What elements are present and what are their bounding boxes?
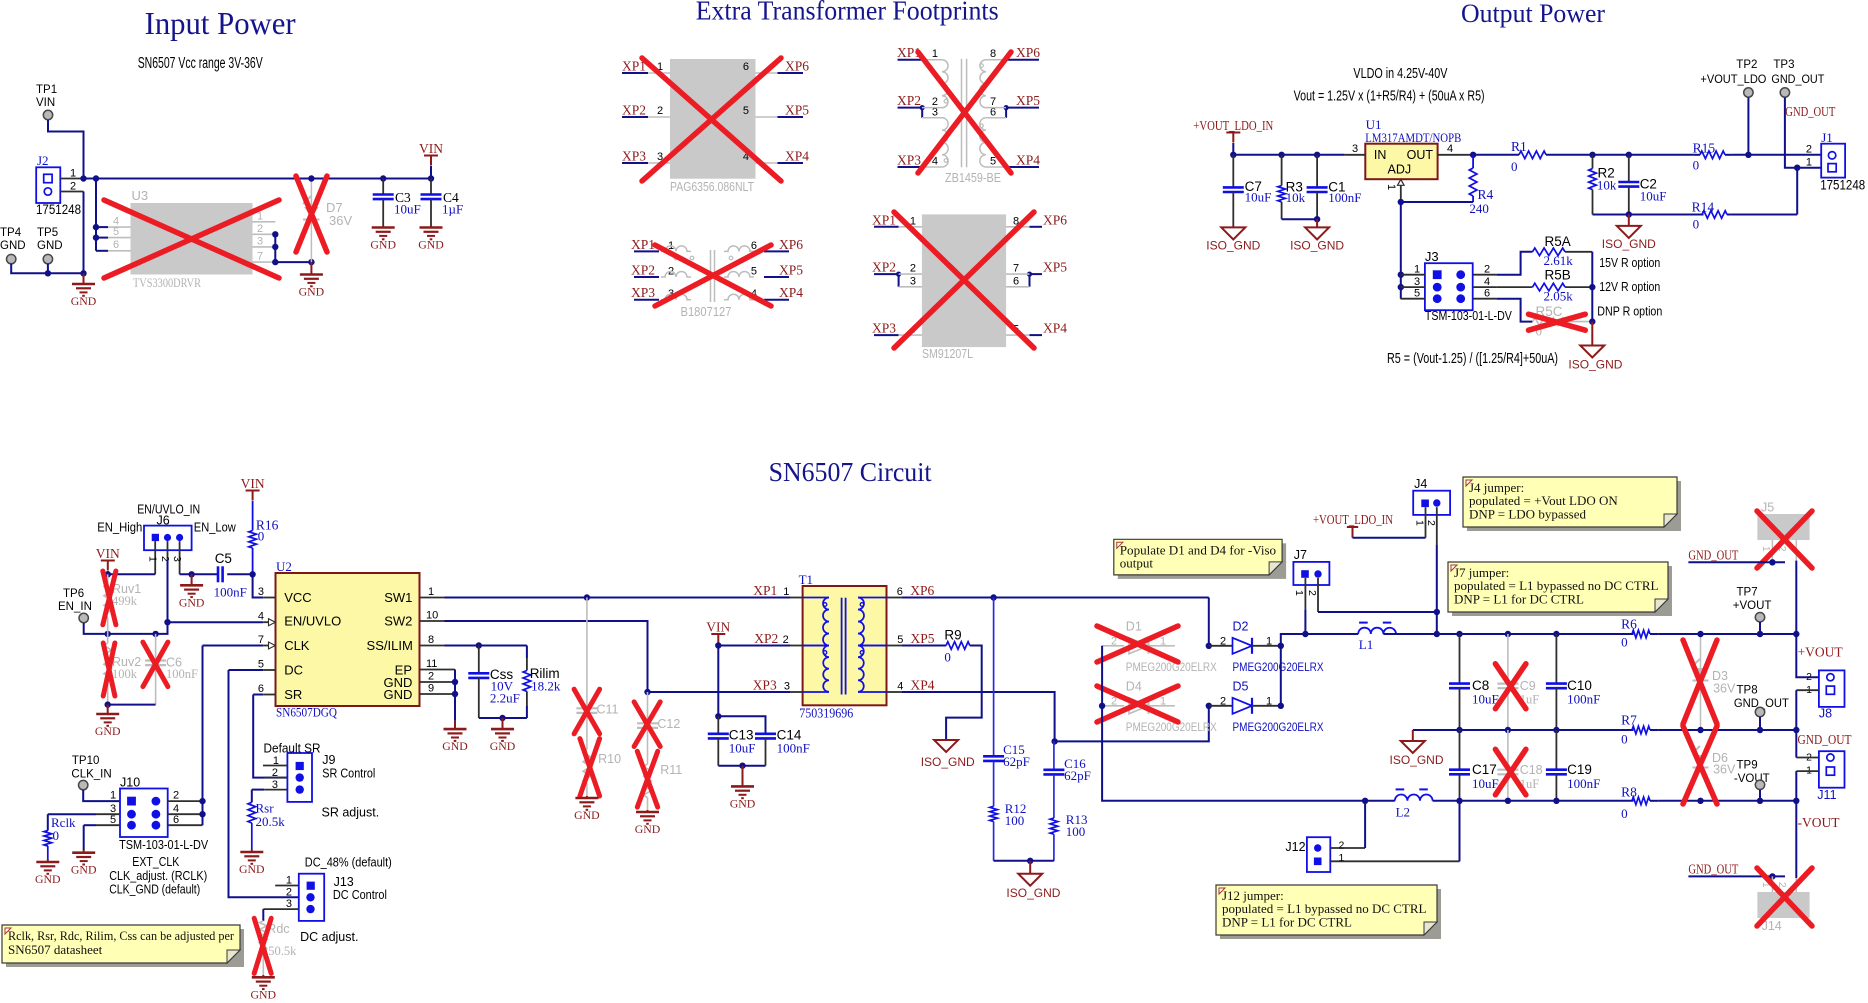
svg-text:XP6: XP6 bbox=[785, 59, 809, 74]
svg-text:SW1: SW1 bbox=[384, 590, 412, 605]
svg-text:XP6: XP6 bbox=[1043, 212, 1067, 227]
svg-text:4: 4 bbox=[897, 681, 903, 693]
wire J4 pin2 down to +V rail bbox=[1436, 545, 1438, 634]
capacitor C7 bbox=[1232, 155, 1234, 188]
svg-text:1: 1 bbox=[1806, 157, 1812, 169]
svg-text:5: 5 bbox=[990, 156, 996, 168]
svg-text:OUT: OUT bbox=[1407, 148, 1434, 162]
red X over D6 bbox=[1683, 726, 1717, 804]
svg-text:5: 5 bbox=[743, 105, 749, 117]
svg-text:GND: GND bbox=[635, 822, 661, 836]
note J4 jumper bbox=[1467, 481, 1681, 531]
ground at EP bbox=[454, 721, 456, 729]
input arrow pin7 bbox=[269, 642, 276, 649]
iso ground tap bbox=[1412, 730, 1414, 741]
svg-text:PMEG200G20ELRX: PMEG200G20ELRX bbox=[1233, 660, 1324, 674]
svg-text:ISO_GND: ISO_GND bbox=[1390, 753, 1444, 767]
red X over D7 bbox=[296, 176, 327, 252]
svg-text:2: 2 bbox=[1806, 144, 1812, 156]
svg-text:2: 2 bbox=[1484, 264, 1490, 276]
svg-text:D5: D5 bbox=[1233, 680, 1249, 694]
svg-text:J7: J7 bbox=[1294, 548, 1307, 562]
capacitor C13 10uF bbox=[717, 716, 719, 734]
wire GND_OUT bottom to J14 bbox=[1688, 875, 1785, 877]
svg-text:TP4: TP4 bbox=[0, 227, 22, 239]
svg-text:2: 2 bbox=[257, 223, 263, 235]
svg-text:750319696: 750319696 bbox=[799, 706, 853, 721]
svg-text:U3: U3 bbox=[132, 188, 149, 203]
lead J13 pin1 bbox=[275, 885, 299, 887]
svg-text:SN6507 Circuit: SN6507 Circuit bbox=[769, 457, 932, 487]
resistor R10 (DNP) bbox=[583, 750, 591, 784]
wire OUT node bbox=[1473, 154, 1496, 156]
svg-text:XP5: XP5 bbox=[1016, 93, 1040, 108]
svg-text:D2: D2 bbox=[1233, 620, 1249, 634]
svg-text:SS/ILIM: SS/ILIM bbox=[367, 638, 413, 653]
svg-text:VCC: VCC bbox=[284, 590, 311, 605]
svg-text:C11: C11 bbox=[597, 703, 619, 717]
svg-text:TSM-103-01-L-DV: TSM-103-01-L-DV bbox=[1425, 309, 1513, 323]
svg-text:R5 = (Vout-1.25) / ([1.25/R4]+: R5 = (Vout-1.25) / ([1.25/R4]+50uA) bbox=[1387, 350, 1558, 367]
red X over B1807127 bbox=[655, 245, 771, 306]
capacitor Css 2.2uF bbox=[478, 646, 480, 674]
svg-text:4: 4 bbox=[1447, 143, 1453, 155]
svg-text:GND_OUT: GND_OUT bbox=[1771, 74, 1824, 86]
ground at C4 bbox=[430, 226, 432, 228]
red X over C12 bbox=[634, 702, 660, 747]
section Extra Transformer Footprints bbox=[622, 0, 1067, 361]
wire ADJ down to J3 bbox=[1400, 202, 1402, 299]
svg-text:XP4: XP4 bbox=[779, 285, 803, 300]
svg-text:+VOUT_LDO_IN: +VOUT_LDO_IN bbox=[1193, 118, 1273, 133]
svg-text:2: 2 bbox=[1806, 671, 1812, 683]
wire LDO port to J4 pin1 bbox=[1353, 537, 1426, 539]
svg-text:GND: GND bbox=[574, 808, 600, 822]
svg-text:SM91207L: SM91207L bbox=[922, 347, 973, 361]
capacitor C3 bbox=[380, 175, 386, 181]
svg-text:100nF: 100nF bbox=[777, 740, 810, 755]
svg-text:6: 6 bbox=[258, 683, 264, 695]
resistor R5A 2.61k bbox=[1533, 248, 1566, 256]
svg-text:Rclk, Rsr, Rdc, Rilim, Css can: Rclk, Rsr, Rdc, Rilim, Css can be adjust… bbox=[8, 928, 235, 943]
svg-text:GND: GND bbox=[37, 240, 63, 252]
resistor Rilim 18.2k bbox=[526, 646, 528, 659]
svg-text:3: 3 bbox=[258, 586, 264, 598]
svg-text:R7: R7 bbox=[1621, 712, 1637, 727]
svg-text:15V R option: 15V R option bbox=[1599, 256, 1660, 270]
svg-text:J12: J12 bbox=[1285, 840, 1305, 854]
red X over C11 bbox=[574, 689, 600, 734]
resistor R6 0 bbox=[1632, 630, 1650, 638]
svg-text:U2: U2 bbox=[276, 559, 292, 574]
svg-text:TP8: TP8 bbox=[1737, 685, 1758, 697]
iso ground at R5 bbox=[1591, 322, 1593, 346]
inductor L2 bbox=[1365, 800, 1395, 802]
svg-text:6: 6 bbox=[173, 814, 179, 826]
svg-text:TP3: TP3 bbox=[1773, 59, 1794, 71]
svg-text:EN_IN: EN_IN bbox=[58, 601, 92, 613]
svg-text:6: 6 bbox=[1484, 288, 1490, 300]
wire J7 pin1 to +V rail bbox=[1304, 610, 1306, 634]
red X over J5 bbox=[1757, 511, 1812, 568]
svg-text:SW2: SW2 bbox=[384, 614, 412, 629]
svg-text:0: 0 bbox=[1621, 806, 1628, 821]
svg-text:0: 0 bbox=[944, 650, 951, 665]
svg-text:XP5: XP5 bbox=[785, 103, 809, 118]
ic U3 TVS3300DRVR (DNP) bbox=[108, 226, 131, 228]
svg-text:TP10: TP10 bbox=[72, 755, 100, 767]
svg-text:5: 5 bbox=[897, 634, 903, 646]
svg-text:DC_48% (default): DC_48% (default) bbox=[305, 856, 392, 870]
svg-text:10uF: 10uF bbox=[729, 740, 756, 755]
wire J10 pin5 to gnd bbox=[96, 824, 120, 826]
svg-text:2: 2 bbox=[159, 556, 171, 562]
ground at C3 bbox=[382, 226, 384, 228]
svg-text:2.05k: 2.05k bbox=[1544, 289, 1574, 304]
capacitor C12 (DNP) bbox=[647, 692, 649, 723]
resistor R5B 2.05k bbox=[1533, 283, 1566, 291]
svg-text:XP4: XP4 bbox=[1016, 153, 1040, 168]
wire SW2 to T1 pin3 bbox=[445, 621, 791, 692]
red X over R5C bbox=[1529, 314, 1586, 330]
red X over Ruv2 bbox=[103, 643, 115, 696]
svg-text:5: 5 bbox=[258, 659, 264, 671]
svg-text:GND: GND bbox=[239, 862, 265, 876]
svg-text:+VOUT: +VOUT bbox=[1733, 600, 1772, 612]
capacitor C17 10uF bbox=[1459, 730, 1461, 770]
svg-text:GND_OUT: GND_OUT bbox=[1688, 862, 1739, 877]
wire J5 pin to +V rail bbox=[1796, 561, 1819, 678]
ground at Ruv2 bbox=[107, 705, 109, 714]
svg-text:GND: GND bbox=[370, 238, 396, 252]
svg-text:4: 4 bbox=[258, 611, 264, 623]
svg-text:5: 5 bbox=[751, 266, 757, 278]
svg-text:TP1: TP1 bbox=[36, 84, 57, 96]
svg-text:SR: SR bbox=[284, 687, 302, 702]
lead J9 pin2 bbox=[264, 777, 287, 779]
svg-text:2: 2 bbox=[1425, 520, 1437, 526]
svg-text:DC Control: DC Control bbox=[333, 888, 387, 902]
svg-text:3: 3 bbox=[784, 681, 790, 693]
wire J3 pin4 to R5B bbox=[1497, 286, 1533, 288]
svg-text:C17: C17 bbox=[1472, 762, 1497, 777]
svg-text:GND: GND bbox=[730, 796, 756, 810]
svg-text:GND_OUT: GND_OUT bbox=[1785, 104, 1836, 119]
pin 1 ADJ of U1 bbox=[1398, 179, 1405, 185]
svg-text:J11: J11 bbox=[1817, 788, 1836, 802]
wire TP3 to J1 pin1 bbox=[1785, 98, 1821, 168]
capacitor C18 1uF (DNP) bbox=[1507, 730, 1509, 770]
resistor R1 0 bbox=[1519, 151, 1546, 159]
svg-text:J1: J1 bbox=[1821, 130, 1833, 145]
diode D2 PMEG200G20ELRX bbox=[1209, 645, 1233, 647]
resistor R15 0 bbox=[1700, 151, 1725, 159]
svg-text:J3: J3 bbox=[1425, 249, 1439, 264]
svg-text:36V: 36V bbox=[1713, 763, 1736, 777]
svg-text:XP3: XP3 bbox=[631, 285, 655, 300]
svg-text:XP5: XP5 bbox=[779, 263, 803, 278]
svg-text:10k: 10k bbox=[1286, 190, 1306, 205]
svg-text:J8: J8 bbox=[1819, 707, 1832, 721]
svg-text:100nF: 100nF bbox=[1567, 776, 1600, 791]
svg-text:GND: GND bbox=[0, 240, 26, 252]
svg-text:Output Power: Output Power bbox=[1461, 0, 1605, 28]
svg-text:GND: GND bbox=[179, 595, 205, 609]
svg-text:10uF: 10uF bbox=[394, 202, 421, 217]
svg-text:Extra Transformer Footprints: Extra Transformer Footprints bbox=[696, 0, 999, 26]
svg-text:0: 0 bbox=[53, 828, 60, 843]
svg-text:XP2: XP2 bbox=[631, 263, 655, 278]
svg-text:TVS3300DRVR: TVS3300DRVR bbox=[133, 275, 201, 290]
svg-text:VIN: VIN bbox=[241, 476, 265, 491]
section Input Power bbox=[0, 5, 463, 308]
svg-text:3: 3 bbox=[910, 275, 916, 287]
svg-text:2: 2 bbox=[173, 790, 179, 802]
wire J6 pin3 to gnd and C5 bbox=[180, 573, 218, 575]
inductor L1 bbox=[1305, 633, 1358, 635]
wire XP5 R9 bbox=[902, 645, 946, 647]
svg-text:12V R option: 12V R option bbox=[1599, 280, 1660, 294]
svg-text:DC adjust.: DC adjust. bbox=[300, 930, 358, 944]
svg-text:J13: J13 bbox=[334, 875, 354, 889]
iso ground at snubber bbox=[1029, 861, 1031, 874]
svg-text:VIN: VIN bbox=[706, 620, 730, 635]
resistor R13 100 bbox=[1050, 818, 1058, 834]
svg-text:0: 0 bbox=[258, 528, 265, 543]
svg-text:DNP = L1 for DC CTRL: DNP = L1 for DC CTRL bbox=[1454, 591, 1584, 606]
wire D1 D4 anodes to -Viso return bbox=[1102, 646, 1365, 801]
resistor R11 (DNP) bbox=[644, 764, 652, 798]
svg-text:GND_OUT: GND_OUT bbox=[1688, 548, 1739, 563]
svg-text:C12: C12 bbox=[657, 717, 680, 731]
svg-text:XP3: XP3 bbox=[622, 149, 646, 164]
svg-text:8: 8 bbox=[990, 48, 996, 60]
svg-text:0: 0 bbox=[1693, 158, 1700, 173]
svg-text:18.2k: 18.2k bbox=[531, 679, 561, 694]
svg-text:+VOUT_LDO_IN: +VOUT_LDO_IN bbox=[1313, 512, 1393, 527]
capacitor C2 bbox=[1628, 155, 1630, 182]
svg-text:7: 7 bbox=[258, 634, 264, 646]
wire U3 right pins to gnd bbox=[275, 234, 311, 262]
wire J7 pin2 to J4 node bbox=[1318, 611, 1437, 613]
svg-text:240: 240 bbox=[1469, 201, 1489, 216]
wire VIN to J6 pin1 bbox=[107, 571, 109, 574]
svg-text:R15: R15 bbox=[1693, 141, 1716, 156]
svg-text:2: 2 bbox=[1306, 590, 1318, 596]
svg-text:100k: 100k bbox=[112, 667, 138, 681]
svg-text:EN_Low: EN_Low bbox=[194, 521, 237, 535]
svg-text:TP2: TP2 bbox=[1736, 59, 1757, 71]
capacitor C11 (DNP) bbox=[586, 598, 588, 709]
svg-text:1751248: 1751248 bbox=[36, 202, 81, 217]
svg-text:VLDO in 4.25V-40V: VLDO in 4.25V-40V bbox=[1353, 65, 1447, 82]
wire D2 D5 cathodes join bbox=[1280, 646, 1282, 706]
capacitor C16 62pF bbox=[1053, 741, 1055, 769]
svg-text:R11: R11 bbox=[660, 763, 682, 777]
svg-text:10: 10 bbox=[426, 610, 438, 622]
svg-text:Vout = 1.25V x (1+R5/R4) + (50: Vout = 1.25V x (1+R5/R4) + (50uA x R5) bbox=[1294, 88, 1485, 105]
transformer core bbox=[841, 598, 843, 695]
svg-text:SR adjust.: SR adjust. bbox=[322, 806, 380, 820]
svg-text:100nF: 100nF bbox=[166, 667, 198, 681]
svg-text:10uF: 10uF bbox=[1472, 776, 1499, 791]
section Output Power bbox=[1193, 0, 1865, 371]
svg-text:R9: R9 bbox=[944, 628, 961, 643]
svg-text:2: 2 bbox=[428, 671, 434, 683]
capacitor C1 bbox=[1316, 155, 1318, 188]
svg-text:GND: GND bbox=[35, 872, 61, 886]
svg-text:GND: GND bbox=[95, 724, 121, 738]
resistor R16 0 bbox=[252, 501, 254, 531]
svg-text:5: 5 bbox=[113, 226, 119, 238]
svg-text:6: 6 bbox=[113, 239, 119, 251]
svg-text:2: 2 bbox=[910, 263, 916, 275]
connector J11 bbox=[1819, 751, 1845, 788]
section SN6507 Circuit bbox=[2, 457, 1852, 1001]
wire ADJ to R4 bbox=[1401, 201, 1473, 203]
svg-text:100nF: 100nF bbox=[1567, 692, 1600, 707]
svg-text:TP7: TP7 bbox=[1737, 587, 1758, 599]
red X over R11 bbox=[637, 751, 657, 807]
svg-text:1: 1 bbox=[1385, 184, 1397, 190]
svg-text:62pF: 62pF bbox=[1003, 754, 1030, 769]
svg-text:SN6507 Vcc range 3V-36V: SN6507 Vcc range 3V-36V bbox=[138, 55, 263, 72]
svg-text:3: 3 bbox=[1414, 276, 1420, 288]
svg-text:9: 9 bbox=[428, 683, 434, 695]
svg-text:PMEG200G20ELRX: PMEG200G20ELRX bbox=[1126, 660, 1217, 674]
svg-text:GND: GND bbox=[251, 987, 277, 1001]
svg-text:5: 5 bbox=[110, 814, 116, 826]
svg-text:XP3: XP3 bbox=[897, 153, 921, 168]
red X over J14 bbox=[1757, 868, 1812, 926]
svg-text:XP4: XP4 bbox=[1043, 321, 1067, 336]
red X over R10 bbox=[580, 739, 600, 796]
svg-text:1: 1 bbox=[1414, 520, 1426, 526]
svg-text:20.5k: 20.5k bbox=[256, 814, 286, 829]
capacitor C9 1uF (DNP) bbox=[1507, 634, 1509, 684]
svg-text:GND: GND bbox=[299, 285, 325, 299]
wire -VOUT to J14 bbox=[1795, 801, 1797, 878]
wire J13 pin3 to Rdc bbox=[263, 908, 299, 910]
svg-text:ADJ: ADJ bbox=[1387, 163, 1411, 177]
capacitor C15 62pF bbox=[993, 598, 995, 757]
svg-text:XP6: XP6 bbox=[779, 237, 803, 252]
iso ground at R9 bbox=[934, 740, 958, 752]
diode D7 36V (DNP) bbox=[310, 179, 312, 263]
red X over D4 bbox=[1097, 686, 1178, 722]
note J7 jumper bbox=[1452, 566, 1672, 616]
wire XP6 node bbox=[902, 597, 1209, 599]
svg-text:R5A: R5A bbox=[1545, 234, 1571, 249]
svg-text:3: 3 bbox=[171, 556, 183, 562]
svg-text:ISO_GND: ISO_GND bbox=[1602, 237, 1656, 251]
ground at R10 bbox=[586, 796, 588, 798]
svg-text:XP1: XP1 bbox=[631, 237, 655, 252]
svg-text:2.2uF: 2.2uF bbox=[490, 691, 520, 706]
svg-text:ISO_GND: ISO_GND bbox=[1290, 238, 1344, 252]
svg-text:100nF: 100nF bbox=[1328, 190, 1361, 205]
svg-text:SN6507 datasheet: SN6507 datasheet bbox=[8, 942, 103, 957]
svg-text:J10: J10 bbox=[120, 776, 140, 790]
ground at C13 bbox=[742, 766, 744, 787]
svg-text:output: output bbox=[1120, 556, 1154, 571]
svg-text:ISO_GND: ISO_GND bbox=[1006, 886, 1060, 900]
connector J14 (DNP) bbox=[1757, 892, 1809, 918]
svg-text:R8: R8 bbox=[1621, 784, 1637, 799]
svg-text:T1: T1 bbox=[799, 572, 813, 587]
resistor R7 0 bbox=[1632, 726, 1650, 734]
iso ground at C1 bbox=[1316, 219, 1318, 227]
pin 4 of U1 bbox=[1438, 154, 1474, 156]
wire J3 pin6 to R5C bbox=[1497, 299, 1533, 322]
ground at Rdc bbox=[262, 975, 264, 977]
resistor Rdc 250.5k (DNP) bbox=[260, 921, 268, 945]
svg-text:1: 1 bbox=[783, 586, 789, 598]
svg-text:D4: D4 bbox=[1126, 680, 1142, 694]
svg-text:XP6: XP6 bbox=[910, 583, 934, 598]
svg-text:1µF: 1µF bbox=[442, 202, 463, 217]
svg-text:3: 3 bbox=[257, 236, 263, 248]
wire J12 pin1 up to L2 out bbox=[1459, 801, 1461, 862]
svg-text:VIN: VIN bbox=[419, 141, 443, 156]
svg-text:GND_OUT: GND_OUT bbox=[1798, 732, 1853, 747]
svg-text:-VOUT: -VOUT bbox=[1798, 815, 1841, 830]
svg-text:10uF: 10uF bbox=[1245, 190, 1272, 205]
wire EN row to U2 bbox=[168, 621, 264, 623]
svg-text:6: 6 bbox=[743, 61, 749, 73]
capacitor C5 100nF bbox=[217, 566, 220, 582]
svg-text:2: 2 bbox=[1339, 840, 1345, 852]
svg-text:XP6: XP6 bbox=[1016, 45, 1040, 60]
svg-text:1751248: 1751248 bbox=[1820, 178, 1865, 193]
svg-text:1: 1 bbox=[1293, 590, 1305, 596]
wire CLK from J10 bbox=[203, 645, 264, 647]
resistor R2 10k bbox=[1592, 155, 1594, 169]
svg-text:TP6: TP6 bbox=[63, 588, 84, 600]
red X over C18 bbox=[1495, 749, 1526, 795]
red X over D3 bbox=[1683, 640, 1717, 724]
svg-text:XP4: XP4 bbox=[785, 149, 809, 164]
capacitor C4 bbox=[428, 175, 434, 181]
note Rclk adjust bbox=[6, 929, 244, 967]
svg-text:8: 8 bbox=[428, 634, 434, 646]
svg-text:2: 2 bbox=[70, 181, 76, 193]
resistor R4 240 bbox=[1469, 168, 1477, 196]
svg-text:ZB1459-BE: ZB1459-BE bbox=[945, 171, 1001, 185]
svg-text:SN6507DGQ: SN6507DGQ bbox=[276, 705, 338, 720]
ground at J10 pin5 bbox=[83, 850, 85, 853]
lead J9 pin1 bbox=[263, 765, 287, 767]
svg-text:C18: C18 bbox=[1520, 763, 1543, 777]
capacitor C14 100nF bbox=[755, 732, 776, 735]
svg-text:GND: GND bbox=[418, 238, 444, 252]
wire R15 to J1 pin2 bbox=[1731, 154, 1821, 156]
svg-text:GND: GND bbox=[442, 739, 468, 753]
red X over C9 bbox=[1495, 664, 1526, 709]
svg-text:GND: GND bbox=[384, 687, 413, 702]
svg-text:R1: R1 bbox=[1511, 139, 1527, 154]
svg-text:DNP = LDO bypassed: DNP = LDO bypassed bbox=[1469, 506, 1586, 521]
wire C13 C14 bottoms bbox=[718, 765, 765, 767]
svg-text:XP2: XP2 bbox=[622, 103, 646, 118]
svg-text:EXT_CLK: EXT_CLK bbox=[132, 855, 180, 869]
wire VIN to T1 pin2 bbox=[718, 645, 790, 647]
svg-text:GND: GND bbox=[71, 863, 97, 877]
svg-text:XP5: XP5 bbox=[1043, 260, 1067, 275]
wire EP GND chain bbox=[454, 670, 456, 695]
ground at Rsr bbox=[251, 849, 253, 852]
wire TP1 to rail bbox=[48, 120, 84, 179]
